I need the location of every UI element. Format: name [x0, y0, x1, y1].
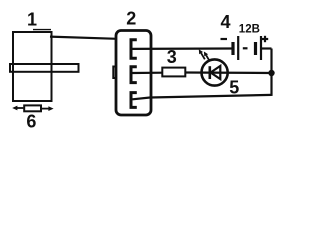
wire resistor to LED and LED to junction: [185, 71, 271, 74]
battery plus sign: [262, 36, 268, 42]
connector latch bump: [113, 67, 117, 79]
mounting flange bar on component 1: [10, 64, 79, 72]
battery cell 1 short plate: [231, 42, 234, 55]
LED emission arrow a: [199, 49, 205, 59]
svg-text:6: 6: [26, 112, 36, 132]
LED cathode bar: [209, 66, 212, 79]
wire from component 1 to connector 2: [50, 37, 117, 39]
svg-text:2: 2: [126, 8, 136, 28]
left arrow of component 6: [12, 106, 23, 111]
connector slot pin 2: [131, 67, 137, 83]
svg-text:1: 1: [27, 10, 37, 30]
svg-text:12В: 12В: [239, 23, 260, 35]
connector slot pin 3: [131, 93, 137, 108]
right arrow of component 6: [42, 106, 54, 111]
battery inter-cell dash: [243, 47, 248, 49]
LED circle (component 5): [202, 59, 228, 85]
battery minus sign: [221, 38, 228, 40]
LED emission arrow b: [204, 52, 210, 62]
connector housing (component 2): [116, 31, 151, 116]
connector slot pin 1: [131, 40, 137, 58]
sensor body box (component 1): [13, 30, 52, 101]
wire pin1 to battery minus: [133, 47, 233, 50]
wire pin2 to resistor: [133, 72, 164, 75]
battery cell 2 long plate: [260, 36, 262, 60]
LED triangle: [211, 66, 221, 79]
wire pin3 bottom return: [133, 95, 272, 99]
right vertical wire: [270, 49, 272, 96]
resistor R (component 3): [162, 68, 185, 77]
svg-text:4: 4: [220, 12, 230, 32]
junction dot: [268, 70, 274, 76]
svg-text:3: 3: [167, 47, 177, 67]
vibrating element (component 6): [24, 105, 41, 111]
battery cell 1 long plate: [237, 36, 239, 60]
wire battery plus to right corner: [262, 47, 272, 49]
svg-text:5: 5: [229, 78, 239, 98]
battery cell 2 short plate: [254, 42, 257, 55]
